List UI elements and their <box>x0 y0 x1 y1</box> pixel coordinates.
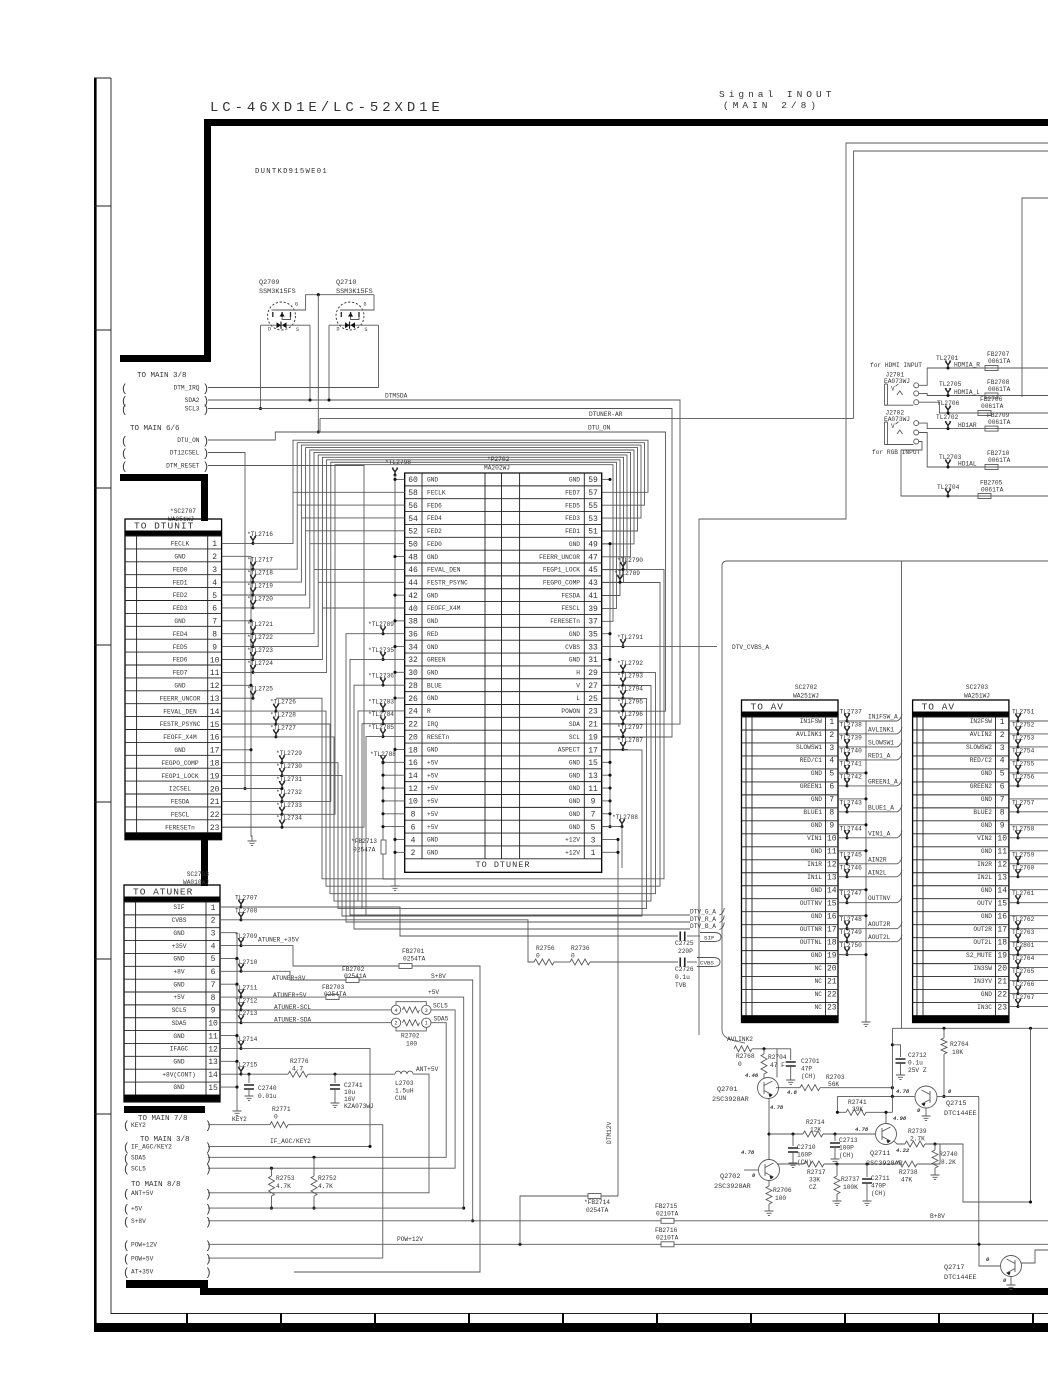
test point TL2735 on DTUNER left pin row <box>383 658 405 660</box>
svg-text:NC: NC <box>815 991 823 998</box>
wire DTUNIT GND pin 7 <box>222 620 251 622</box>
capacitor C2740 0.01u <box>248 1074 250 1083</box>
wire AVLINK2 from AV box <box>735 1041 745 1043</box>
wire gate bus <box>318 294 374 296</box>
svg-text:1: 1 <box>211 904 216 913</box>
svg-text:(MAIN 2/8): (MAIN 2/8) <box>723 100 820 111</box>
svg-text:22: 22 <box>997 990 1007 999</box>
wire Q2709 source down to SDA2 <box>309 325 311 400</box>
wire Q2710 gate <box>361 295 374 310</box>
wire Q2715 emitter ground <box>925 1108 927 1113</box>
svg-text:4: 4 <box>411 836 416 845</box>
svg-text:(: ( <box>123 1240 130 1252</box>
svg-text:(: ( <box>121 405 128 417</box>
svg-text:TL2749: TL2749 <box>840 929 863 936</box>
svg-text:4.8: 4.8 <box>787 1089 798 1096</box>
svg-text:13: 13 <box>588 772 598 781</box>
svg-text:KEY2: KEY2 <box>232 1116 247 1123</box>
node tag IN1FSW_A <box>847 714 902 721</box>
svg-text:GND: GND <box>811 822 822 829</box>
svg-text:TO DTUNER: TO DTUNER <box>476 860 531 870</box>
wire DTUNER left GND pin row <box>395 556 405 558</box>
svg-text:MA202WJ: MA202WJ <box>484 465 510 472</box>
svg-text:9: 9 <box>211 1007 216 1016</box>
svg-text:*TL2789: *TL2789 <box>368 621 394 628</box>
svg-text:TL2751: TL2751 <box>1012 709 1035 716</box>
svg-text:8: 8 <box>212 631 217 640</box>
svg-text:50: 50 <box>408 541 418 550</box>
svg-text:21: 21 <box>588 721 598 730</box>
svg-text:SDA5: SDA5 <box>131 1155 146 1162</box>
svg-text:SLOWSW1: SLOWSW1 <box>796 744 822 751</box>
test point TL2742 on SC2702 pin 6 <box>838 785 847 787</box>
svg-text:2: 2 <box>829 731 834 740</box>
transistor Q2715 DTC144EE <box>915 1086 937 1108</box>
svg-text:*TL2790: *TL2790 <box>617 557 643 564</box>
svg-text:0210TA: 0210TA <box>656 1211 679 1218</box>
wire DTUNER left GND pin row <box>395 620 405 622</box>
test point TL2789 on DTUNER pin row <box>602 581 620 583</box>
svg-text:GND: GND <box>811 913 822 920</box>
svg-text:15: 15 <box>588 759 598 768</box>
svg-text:GND: GND <box>981 848 992 855</box>
svg-text:TL2746: TL2746 <box>840 864 863 871</box>
resistor R2704 47 <box>763 1049 765 1054</box>
capacitor C2713 100P (CH) <box>833 1132 836 1135</box>
svg-text:FED6: FED6 <box>427 502 442 509</box>
svg-text:V: V <box>576 682 580 689</box>
svg-text:3: 3 <box>212 566 217 575</box>
svg-text:100: 100 <box>775 1195 786 1202</box>
wire SIF line with C2725 <box>241 907 678 936</box>
test point TL2713 on ATUNER pin 10 <box>220 1022 241 1024</box>
svg-text:VIN1: VIN1 <box>807 835 822 842</box>
svg-text:15: 15 <box>208 1084 218 1093</box>
svg-text:C2726: C2726 <box>675 966 694 973</box>
svg-text:H: H <box>576 670 580 677</box>
svg-text:R2764: R2764 <box>950 1041 969 1048</box>
svg-text:DTU_ON: DTU_ON <box>177 437 200 444</box>
wire RESETn net down <box>366 737 383 916</box>
svg-text:): ) <box>203 436 210 448</box>
svg-text:2SC3928AR: 2SC3928AR <box>712 1096 749 1104</box>
svg-text:OUT2R: OUT2R <box>973 926 992 933</box>
svg-text:FB2716: FB2716 <box>655 1227 678 1234</box>
svg-text:20: 20 <box>827 964 837 973</box>
wire Q2702 base lead <box>744 1169 758 1171</box>
wire DTUNIT ground bus <box>222 556 252 838</box>
svg-text:3: 3 <box>425 1008 428 1014</box>
svg-text:GND: GND <box>981 913 992 920</box>
wire +5V rail <box>208 1207 464 1209</box>
svg-text:G: G <box>295 302 298 308</box>
svg-text:R2739: R2739 <box>908 1128 927 1135</box>
svg-text:*TL2783: *TL2783 <box>368 698 394 705</box>
wire H V L ASPECT into bottom loops <box>623 671 643 673</box>
svg-text:02547A: 02547A <box>353 847 376 854</box>
svg-text:TL2709: TL2709 <box>235 933 258 940</box>
svg-text:TL2740: TL2740 <box>840 747 863 754</box>
svg-text:+5V: +5V <box>428 989 439 996</box>
svg-text:SC2703: SC2703 <box>966 684 989 691</box>
test point TL2791 on DTUNER pin row <box>602 646 623 648</box>
test point TL2756 on SC2703 pin 6 <box>1009 785 1018 787</box>
svg-text:(CH): (CH) <box>871 1190 886 1197</box>
svg-text:R2736: R2736 <box>571 945 590 952</box>
wire HDMI row TL2705 <box>919 393 948 395</box>
wire right edge drop <box>1030 1028 1032 1202</box>
svg-text:D: D <box>268 327 271 333</box>
svg-text:1.5uH: 1.5uH <box>395 1088 414 1095</box>
svg-text:16: 16 <box>210 734 220 743</box>
svg-text:*TL2792: *TL2792 <box>617 660 643 667</box>
svg-text:GND: GND <box>427 850 438 857</box>
svg-text:RED/C2: RED/C2 <box>970 757 993 764</box>
svg-text:TL2758: TL2758 <box>1012 825 1035 832</box>
svg-text:TL2764: TL2764 <box>1012 955 1035 962</box>
svg-text:14: 14 <box>210 708 220 717</box>
svg-text:(: ( <box>121 462 128 474</box>
node gate junction <box>317 293 320 296</box>
svg-text:(: ( <box>121 384 128 396</box>
svg-text:KEY2: KEY2 <box>131 1122 146 1129</box>
svg-text:FESTR_PSYNC: FESTR_PSYNC <box>160 721 201 728</box>
test point TL2762 on SC2703 pin 17 <box>1009 928 1018 930</box>
transistor Q2717 DTC144EE <box>1001 1256 1022 1277</box>
svg-text:18: 18 <box>210 760 220 769</box>
svg-text:*TL2785: *TL2785 <box>368 724 394 731</box>
svg-text:SSM3K15FS: SSM3K15FS <box>259 288 296 296</box>
svg-text:29: 29 <box>588 669 598 678</box>
svg-text:4.78: 4.78 <box>896 1088 910 1095</box>
svg-text:TO MAIN 6/6: TO MAIN 6/6 <box>130 425 180 433</box>
test point TL2801 on SC2703 pin 19 <box>1009 954 1018 956</box>
svg-text:Q2715: Q2715 <box>946 1100 966 1108</box>
wire SC2703 pin 9 <box>1009 824 1048 826</box>
svg-text:15: 15 <box>827 900 837 909</box>
svg-text:R2706: R2706 <box>773 1187 792 1194</box>
test point TL2709 on ATUNER pin 4 <box>220 945 241 947</box>
svg-text:*TL2784: *TL2784 <box>368 711 394 718</box>
wire CVBS line with R2756 R2736 C2726 <box>241 920 534 962</box>
svg-text:0.1u: 0.1u <box>675 974 690 981</box>
test point TL2716 on DTUNIT pin 1 <box>222 542 253 544</box>
svg-text:IN2L: IN2L <box>977 874 992 881</box>
svg-text:S+8V: S+8V <box>431 973 446 980</box>
svg-text:FESCL: FESCL <box>171 812 190 819</box>
svg-text:FECLK: FECLK <box>427 489 446 496</box>
svg-text:23: 23 <box>588 708 598 717</box>
svg-text:*TL2734: *TL2734 <box>276 815 302 822</box>
svg-text:DTV_G_A: DTV_G_A <box>690 909 716 916</box>
wire IRQ net down <box>362 724 383 909</box>
svg-text:AOUT2R: AOUT2R <box>868 921 891 928</box>
svg-text:TL2705: TL2705 <box>939 381 962 388</box>
wire Q2701 collector to R2703 <box>776 1087 800 1089</box>
svg-text:44: 44 <box>408 579 418 588</box>
svg-text:+5V: +5V <box>427 798 438 805</box>
svg-text:IN1L: IN1L <box>807 874 822 881</box>
svg-text:AVLINK1: AVLINK1 <box>796 731 822 738</box>
svg-text:GND: GND <box>174 683 185 690</box>
svg-text:Q2702: Q2702 <box>720 1173 740 1181</box>
svg-text:5: 5 <box>212 592 217 601</box>
svg-text:C2710: C2710 <box>797 1144 816 1151</box>
node tag AOUT2L <box>847 935 902 942</box>
svg-text:TL2757: TL2757 <box>1012 799 1035 806</box>
svg-text:2: 2 <box>212 553 217 562</box>
svg-text:FED4: FED4 <box>427 515 442 522</box>
svg-text:100K: 100K <box>843 1184 858 1191</box>
transistor Q2702 2SC3928AR <box>759 1160 780 1181</box>
resistor R2756 0 <box>534 959 554 965</box>
wire DTUNER left FED stubs to bus <box>293 492 405 608</box>
svg-text:FEOFF_X4M: FEOFF_X4M <box>427 605 461 612</box>
svg-text:FESDA: FESDA <box>171 799 190 806</box>
svg-text:FB2703: FB2703 <box>322 984 345 991</box>
svg-text:4: 4 <box>829 757 834 766</box>
svg-text:WA251WJ: WA251WJ <box>964 693 990 700</box>
test point TL2732 on DTUNIT pin 21 <box>222 800 282 802</box>
svg-text:AIN2L: AIN2L <box>868 869 887 876</box>
svg-text:(: ( <box>123 1189 130 1201</box>
wire SDA2 DTMSDA line to SDA pin21 <box>208 400 680 724</box>
svg-text:RED: RED <box>427 631 438 638</box>
svg-text:*TL2726: *TL2726 <box>270 699 296 706</box>
svg-text:*TL2724: *TL2724 <box>247 660 273 667</box>
test point TL2706 <box>947 412 950 415</box>
svg-text:42: 42 <box>408 592 418 601</box>
test point TL2736 on DTUNER left pin row <box>383 684 405 686</box>
svg-text:IN3C: IN3C <box>977 1004 992 1011</box>
svg-text:R2776: R2776 <box>290 1058 309 1065</box>
svg-text:*TL2716: *TL2716 <box>247 531 273 538</box>
svg-text:TL2748: TL2748 <box>840 916 863 923</box>
wire HDMI row TL2704 <box>901 442 1048 497</box>
svg-text:*TL2731: *TL2731 <box>276 776 302 783</box>
svg-text:GND: GND <box>981 796 992 803</box>
test point TL2731 on DTUNIT pin 20 <box>222 788 282 790</box>
svg-text:100P: 100P <box>839 1145 854 1152</box>
svg-text:AOUT2L: AOUT2L <box>868 934 891 941</box>
svg-text:33: 33 <box>588 643 598 652</box>
svg-text:9: 9 <box>829 822 834 831</box>
svg-text:48: 48 <box>408 553 418 562</box>
svg-text:02541A: 02541A <box>344 973 367 980</box>
test point TL2719 on DTUNIT pin 5 <box>222 594 253 596</box>
svg-text:0061TA: 0061TA <box>988 386 1011 393</box>
svg-text:TL2742: TL2742 <box>840 773 863 780</box>
svg-text:ANT+5V: ANT+5V <box>416 1066 439 1073</box>
connector SC2703 WA251WJ TO AV <box>913 684 1009 1023</box>
svg-text:45: 45 <box>588 566 598 575</box>
svg-text:26: 26 <box>408 695 418 704</box>
svg-text:39: 39 <box>588 605 598 614</box>
svg-text:*TL2720: *TL2720 <box>247 595 273 602</box>
svg-text:*TL2730: *TL2730 <box>276 763 302 770</box>
svg-text:GND: GND <box>981 770 992 777</box>
wire SC2702 ground bus <box>865 721 867 1019</box>
svg-text:5: 5 <box>1000 770 1005 779</box>
node CVBS tag <box>697 958 720 967</box>
wire +8V(CONT) with R2776 and L2703 <box>241 1073 288 1075</box>
wire KEY2 with R2771 <box>208 1124 270 1126</box>
test point TL2740 on SC2702 pin 4 <box>838 759 847 761</box>
svg-text:10u: 10u <box>344 1089 355 1096</box>
svg-text:470P: 470P <box>871 1183 886 1190</box>
svg-text:47K: 47K <box>901 1177 912 1184</box>
svg-text:FESCL: FESCL <box>561 605 580 612</box>
svg-text:FED7: FED7 <box>173 670 188 677</box>
svg-text:4.78: 4.78 <box>855 1126 869 1133</box>
svg-text:ATUNER_+35V: ATUNER_+35V <box>258 937 299 944</box>
svg-text:D: D <box>337 327 340 333</box>
ground DTUNER left bus <box>391 883 400 891</box>
wire SDA5 down to TO MAIN stub <box>208 1023 446 1158</box>
wire POW+12V rail with FB2716 <box>208 1243 661 1245</box>
svg-text:+12V: +12V <box>565 850 580 857</box>
svg-text:28: 28 <box>408 682 418 691</box>
capacitor C2701 47P (CH) <box>790 1049 792 1060</box>
svg-text:WA251WJ: WA251WJ <box>793 693 819 700</box>
svg-text:46: 46 <box>408 566 418 575</box>
svg-text:TL2750: TL2750 <box>840 942 863 949</box>
wire HDMI row TL2706 <box>919 402 948 413</box>
svg-text:TO MAIN 3/8: TO MAIN 3/8 <box>137 372 187 380</box>
svg-text:2SC3928AR: 2SC3928AR <box>714 1183 751 1191</box>
svg-text:20: 20 <box>997 964 1007 973</box>
svg-text:TL2765: TL2765 <box>1012 968 1035 975</box>
svg-text:): ) <box>205 1204 212 1216</box>
svg-text:BLUE2: BLUE2 <box>973 809 992 816</box>
svg-text:17: 17 <box>827 925 837 934</box>
test point TL2704 <box>947 495 950 498</box>
wire Q2709 gate to DTU_ON net <box>292 295 318 310</box>
svg-text:SCL3: SCL3 <box>185 406 200 413</box>
wire SC2703 pin 11 <box>1009 850 1048 852</box>
svg-text:R2740: R2740 <box>939 1151 958 1158</box>
wire DTU_ON long line to POWON <box>208 432 666 711</box>
svg-text:GND: GND <box>427 670 438 677</box>
svg-text:IN2FSW: IN2FSW <box>970 718 993 725</box>
svg-text:FERESETn: FERESETn <box>165 824 195 831</box>
svg-text:*TL2795: *TL2795 <box>617 698 643 705</box>
wire BLUE to DTV_B_A <box>354 685 690 929</box>
capacitor C2741 10u 16V KZA073WJ <box>334 1074 336 1083</box>
svg-text:GREEN: GREEN <box>427 657 446 664</box>
svg-text:17: 17 <box>588 746 598 755</box>
resistor R2714 12K <box>769 1133 803 1135</box>
svg-text:*TL2788: *TL2788 <box>370 751 396 758</box>
test point TL2720 on DTUNIT pin 6 <box>222 607 253 609</box>
svg-text:S+8V: S+8V <box>131 1218 146 1225</box>
svg-text:12: 12 <box>408 785 418 794</box>
test point TL2789 on DTUNER left pin row <box>383 633 405 635</box>
svg-text:GND: GND <box>173 981 184 988</box>
svg-text:GND: GND <box>811 770 822 777</box>
svg-text:*TL2718: *TL2718 <box>247 570 273 577</box>
svg-text:S2_MUTE: S2_MUTE <box>966 952 992 959</box>
svg-text:+5V: +5V <box>427 760 438 767</box>
svg-text:AVLIN2: AVLIN2 <box>970 731 993 738</box>
wire AV section top line with rounded corner <box>722 561 1048 1041</box>
test point TL2741 on SC2702 pin 5 <box>838 772 847 774</box>
svg-text:*TL2798: *TL2798 <box>385 459 411 466</box>
svg-text:FED1: FED1 <box>173 579 188 586</box>
wire bus nested loops DTUNIT to DTUNER <box>253 440 664 916</box>
svg-text:25V Z: 25V Z <box>908 1067 927 1074</box>
wire SCL5 down to TO MAIN stub <box>208 1010 455 1168</box>
svg-text:TL2743: TL2743 <box>840 799 863 806</box>
node tag GREEN1_A <box>847 779 902 786</box>
svg-text:DTU_ON: DTU_ON <box>588 425 611 432</box>
svg-text:R2737: R2737 <box>841 1176 860 1183</box>
svg-text:(CH): (CH) <box>801 1073 816 1080</box>
svg-text:*TL2721: *TL2721 <box>247 621 273 628</box>
test point TL2785 on DTUNER left pin row <box>383 736 405 738</box>
test point TL2743 on SC2702 pin 8 <box>838 811 847 813</box>
capacitor C2725 220P <box>680 932 685 941</box>
svg-text:DTM12V: DTM12V <box>606 1121 613 1144</box>
svg-text:DTMSDA: DTMSDA <box>385 393 408 400</box>
svg-text:FEOFF_X4M: FEOFF_X4M <box>163 734 197 741</box>
svg-text:8: 8 <box>829 809 834 818</box>
test point TL2795 on DTUNER pin row <box>602 710 623 712</box>
svg-text:FEERR_UNCOR: FEERR_UNCOR <box>160 695 201 702</box>
svg-text:NC: NC <box>815 1004 823 1011</box>
svg-text:27: 27 <box>588 682 598 691</box>
svg-text:0.1u: 0.1u <box>908 1060 923 1067</box>
svg-text:GND: GND <box>427 695 438 702</box>
svg-text:*TL2725: *TL2725 <box>247 686 273 693</box>
svg-text:RESETn: RESETn <box>427 734 450 741</box>
test point TL2761 on SC2703 pin 15 <box>1009 902 1018 904</box>
svg-text:GND: GND <box>427 618 438 625</box>
svg-text:DTUNER-AR: DTUNER-AR <box>589 411 623 418</box>
svg-text:L2703: L2703 <box>395 1080 414 1087</box>
svg-text:3: 3 <box>829 744 834 753</box>
svg-text:55: 55 <box>588 502 598 511</box>
wire collector drop to Q2717 <box>978 1096 980 1244</box>
svg-text:HDMIA_R: HDMIA_R <box>954 362 980 369</box>
svg-text:CVBS: CVBS <box>172 917 187 924</box>
svg-text:GND: GND <box>569 824 580 831</box>
svg-text:G: G <box>364 302 367 308</box>
svg-text:IN2R: IN2R <box>977 861 992 868</box>
svg-text:19: 19 <box>827 951 837 960</box>
svg-text:TL2706: TL2706 <box>937 400 960 407</box>
svg-text:16: 16 <box>997 913 1007 922</box>
svg-text:GND: GND <box>811 848 822 855</box>
svg-text:TL2712: TL2712 <box>235 997 258 1004</box>
svg-text:FEGP1_LOCK: FEGP1_LOCK <box>543 567 580 574</box>
svg-text:GND: GND <box>174 554 185 561</box>
wire IFAGC down to IF_AGC/KEY2 <box>241 1048 370 1146</box>
test point TL2763 on SC2703 pin 18 <box>1009 941 1018 943</box>
svg-text:56: 56 <box>408 502 418 511</box>
svg-text:AVLINK2: AVLINK2 <box>727 1036 753 1043</box>
svg-text:SC2702: SC2702 <box>795 684 818 691</box>
svg-text:GND: GND <box>174 747 185 754</box>
svg-text:FED2: FED2 <box>173 592 188 599</box>
svg-text:): ) <box>205 1217 212 1229</box>
svg-text:11: 11 <box>210 669 220 678</box>
svg-text:41: 41 <box>588 592 598 601</box>
resistor R2706 100 <box>768 1181 770 1187</box>
svg-text:0254TA: 0254TA <box>586 1207 609 1214</box>
svg-text:4: 4 <box>211 942 216 951</box>
svg-text:19: 19 <box>997 951 1007 960</box>
